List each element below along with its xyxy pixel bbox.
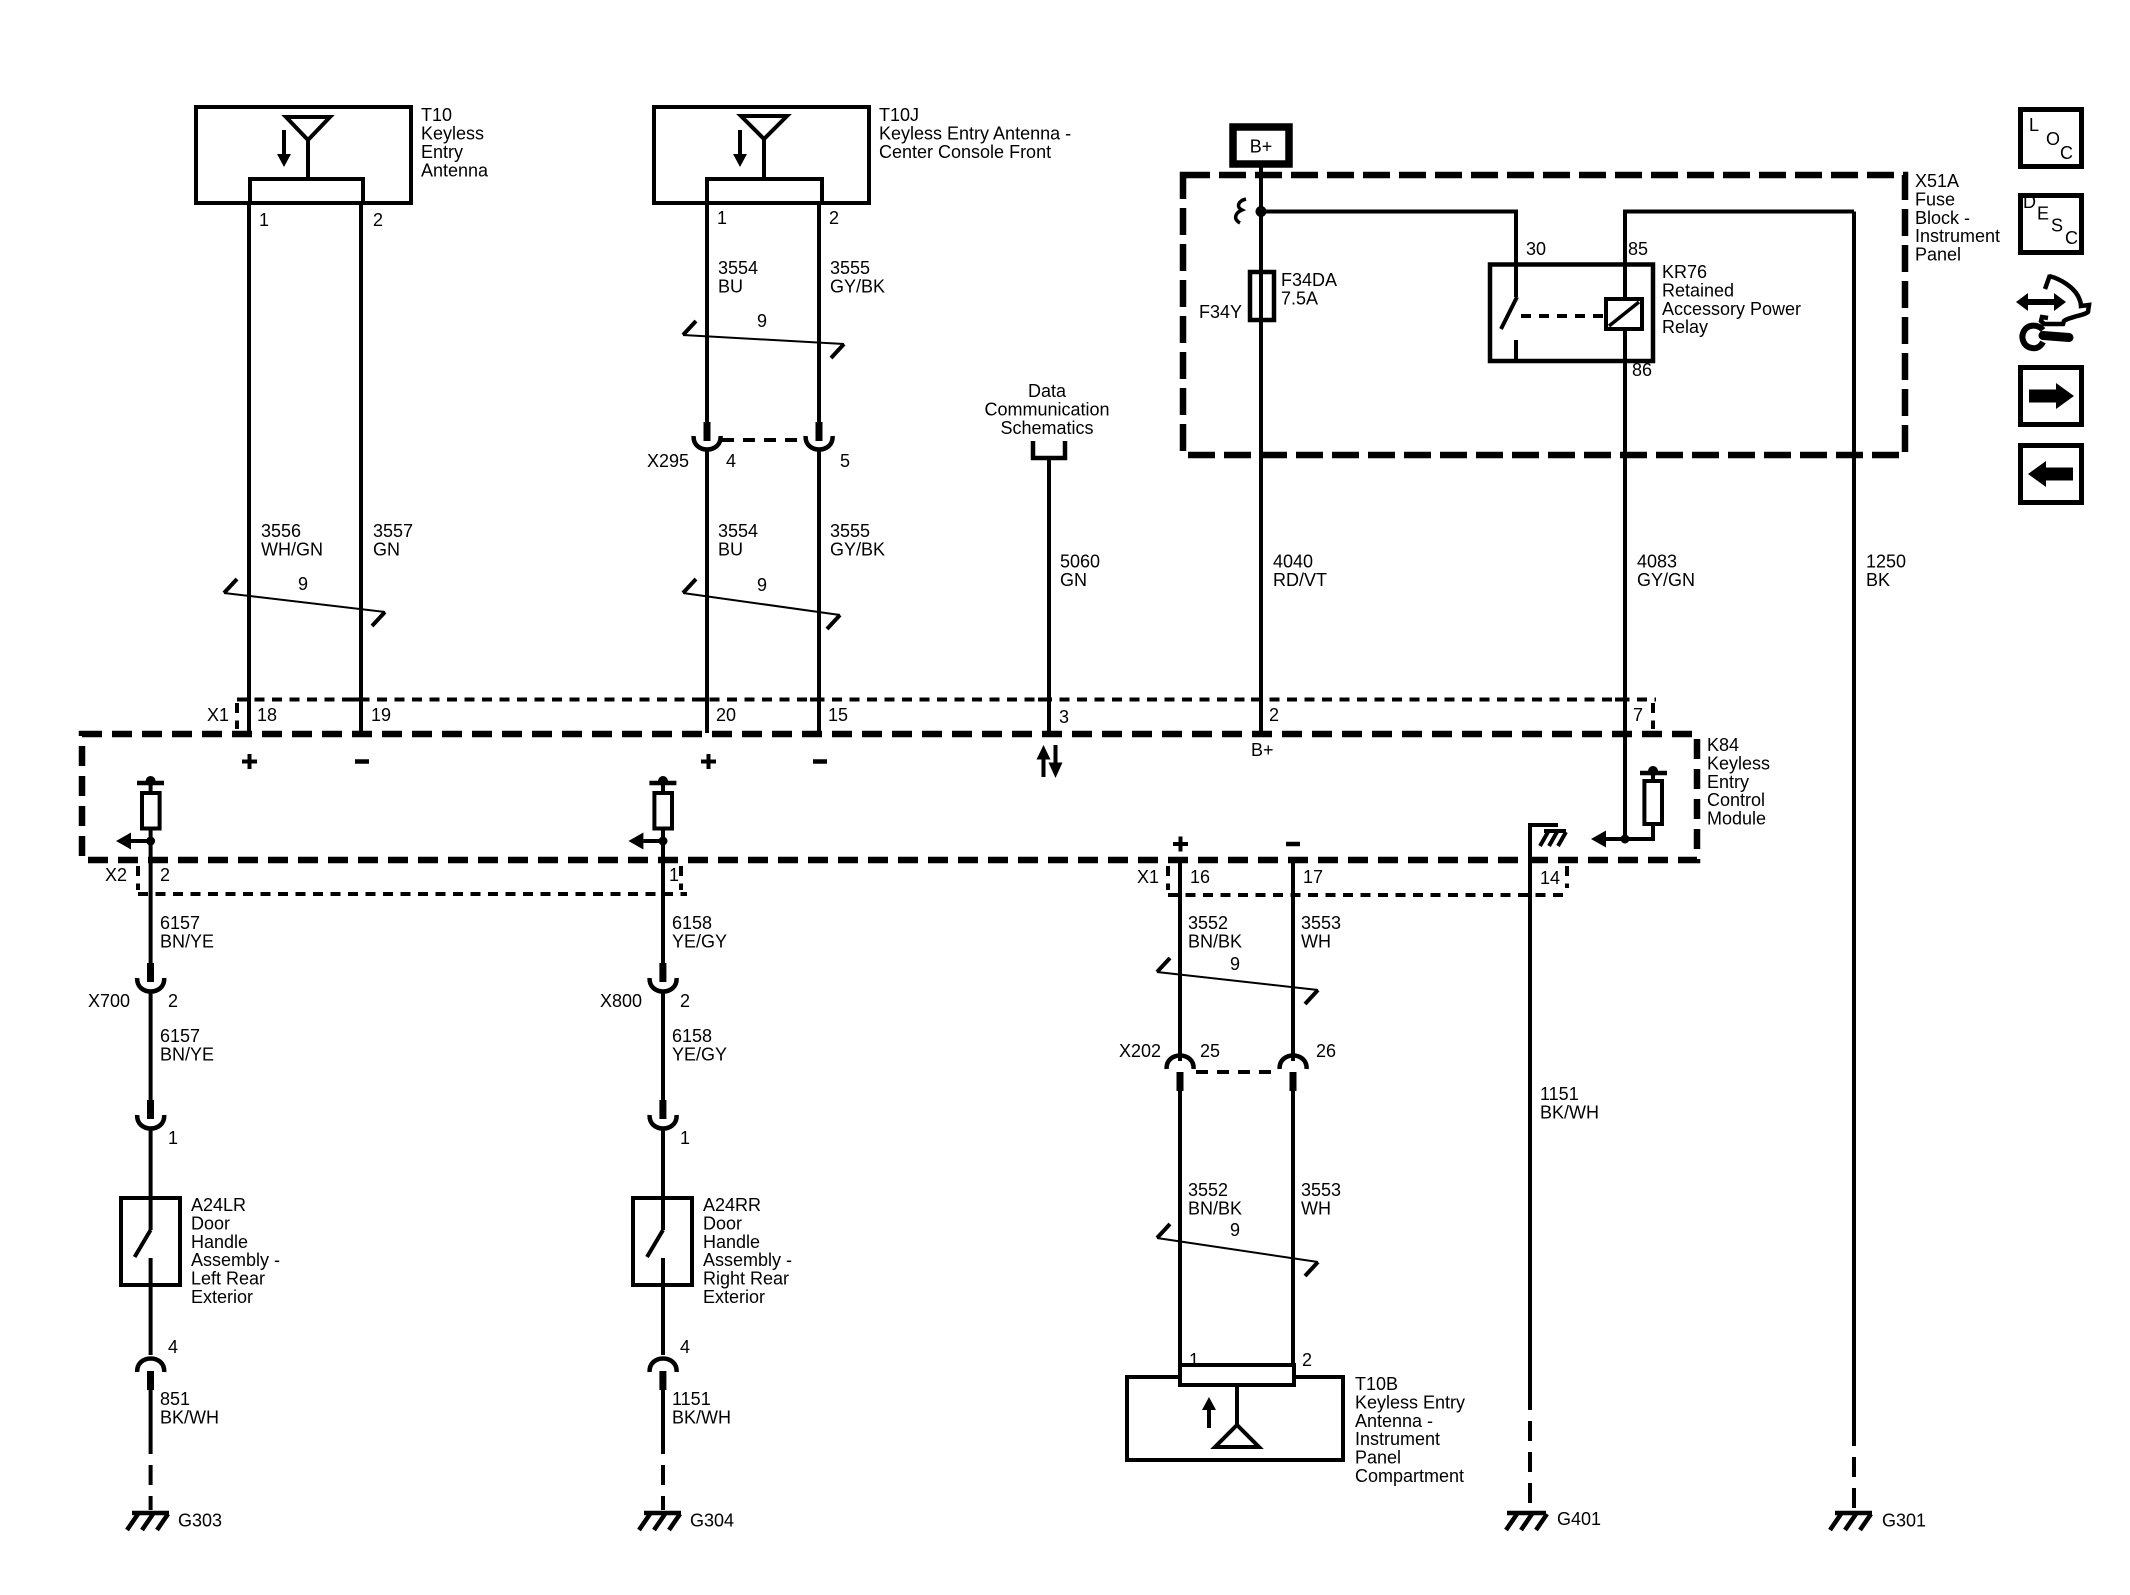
- svg-text:F34DA: F34DA: [1281, 270, 1337, 290]
- svg-text:Accessory Power: Accessory Power: [1662, 299, 1801, 319]
- connector X202: [1119, 1041, 1336, 1091]
- ground G401: [1506, 1509, 1601, 1530]
- antenna T10J (Keyless Entry Antenna - Center Console Front): [654, 105, 1071, 203]
- fuse clip squiggle: [1236, 199, 1246, 223]
- svg-text:6157: 6157: [160, 1026, 200, 1046]
- svg-text:X700: X700: [88, 991, 130, 1011]
- svg-text:K84: K84: [1707, 735, 1739, 755]
- svg-text:18: 18: [257, 705, 277, 725]
- svg-text:85: 85: [1628, 239, 1648, 259]
- svg-text:1: 1: [168, 1128, 178, 1148]
- svg-text:3: 3: [1059, 707, 1069, 727]
- svg-text:Door: Door: [191, 1213, 230, 1233]
- svg-text:Panel: Panel: [1355, 1448, 1401, 1468]
- svg-text:Entry: Entry: [1707, 772, 1749, 792]
- svg-text:5060: 5060: [1060, 552, 1100, 572]
- svg-text:BK/WH: BK/WH: [1540, 1103, 1599, 1123]
- svg-text:25: 25: [1200, 1041, 1220, 1061]
- svg-text:4040: 4040: [1273, 552, 1313, 572]
- svg-text:BU: BU: [718, 277, 743, 297]
- svg-text:2: 2: [680, 991, 690, 1011]
- svg-text:Assembly -: Assembly -: [703, 1250, 792, 1270]
- wire 5060 GN serial data to K84 X1-3: [1047, 458, 1051, 733]
- svg-text:Antenna: Antenna: [421, 161, 489, 181]
- antenna driver termination at X2 pin 2 inside K84: [116, 776, 164, 860]
- svg-text:6158: 6158: [672, 913, 712, 933]
- pin 7: [1615, 698, 1625, 702]
- node Data Communication Schematics: [984, 381, 1109, 458]
- twisted pair marker 9 on 3556/3557: [224, 574, 385, 626]
- wire B+ feed down into fuse block: [1259, 167, 1263, 733]
- svg-text:30: 30: [1526, 239, 1546, 259]
- svg-text:Assembly -: Assembly -: [191, 1250, 280, 1270]
- svg-text:1: 1: [717, 208, 727, 228]
- svg-text:F34Y: F34Y: [1199, 302, 1242, 322]
- connector X1 top row of K84: [207, 700, 1656, 730]
- icon DESC: [2021, 192, 2082, 253]
- polarity marks for antenna pins 16/17: [1173, 837, 1300, 852]
- svg-text:2: 2: [829, 208, 839, 228]
- wire 6157 BN/YE from K84 X2-2 to X700: [149, 860, 153, 963]
- module K84 Keyless Entry Control Module dashed box: [82, 734, 1697, 860]
- twisted pair marker 9 on 3552/3553 upper: [1157, 954, 1318, 1004]
- svg-text:GY/BK: GY/BK: [830, 540, 885, 560]
- svg-text:4: 4: [168, 1337, 178, 1357]
- svg-text:1: 1: [680, 1128, 690, 1148]
- pin 18: [239, 698, 249, 702]
- svg-text:A24RR: A24RR: [703, 1195, 761, 1215]
- pin 5 female cup: [806, 436, 833, 450]
- pull-up termination at pin 7 inside K84: [1591, 766, 1667, 848]
- svg-text:Handle: Handle: [703, 1232, 760, 1252]
- switch A24RR Door Handle Assembly - Right Rear Exterior: [633, 1129, 792, 1307]
- svg-text:9: 9: [298, 574, 308, 594]
- svg-text:9: 9: [757, 575, 767, 595]
- svg-text:BN/YE: BN/YE: [160, 932, 214, 952]
- wire 3555 GY/BK from T10J pin 2 to X295: [817, 203, 821, 424]
- svg-text:26: 26: [1316, 1041, 1336, 1061]
- relay switch contact: [1514, 265, 1518, 298]
- svg-text:BK: BK: [1866, 570, 1890, 590]
- svg-text:2: 2: [1269, 705, 1279, 725]
- svg-text:3554: 3554: [718, 258, 758, 278]
- connector X1 bottom row of K84: [1137, 866, 1567, 895]
- svg-text:B+: B+: [1250, 137, 1273, 157]
- svg-text:7: 7: [1633, 705, 1643, 725]
- svg-text:G304: G304: [690, 1511, 734, 1531]
- connector X295: [647, 422, 850, 471]
- svg-text:Door: Door: [703, 1213, 742, 1233]
- svg-text:2: 2: [373, 210, 383, 230]
- svg-text:WH/GN: WH/GN: [261, 540, 323, 560]
- svg-text:851: 851: [160, 1389, 190, 1409]
- svg-text:Retained: Retained: [1662, 280, 1734, 300]
- svg-text:2: 2: [160, 865, 170, 885]
- svg-text:2: 2: [168, 991, 178, 1011]
- node junction at B+ branch: [1256, 206, 1267, 217]
- connector X800: [600, 963, 690, 1011]
- ground G304: [639, 1511, 734, 1531]
- svg-text:BK/WH: BK/WH: [160, 1408, 219, 1428]
- svg-text:Entry: Entry: [421, 142, 463, 162]
- svg-text:1151: 1151: [672, 1389, 711, 1409]
- svg-text:3555: 3555: [830, 258, 870, 278]
- connector X700: [88, 963, 178, 1011]
- wire 3557 GN from T10 pin 2 to K84 X1-19: [359, 203, 363, 733]
- svg-text:RD/VT: RD/VT: [1273, 570, 1327, 590]
- svg-text:X51A: X51A: [1915, 171, 1959, 191]
- svg-text:17: 17: [1303, 867, 1323, 887]
- pin 4 male pin: [704, 422, 711, 441]
- svg-text:Block -: Block -: [1915, 208, 1970, 228]
- relay KR76 Retained Accessory Power Relay: [1490, 239, 1801, 380]
- fuse block X51A dashed box (Fuse Block - Instrument Panel): [1183, 175, 1905, 455]
- twisted pair marker 9 on 3554/3555 lower: [683, 575, 840, 629]
- svg-text:4: 4: [680, 1337, 690, 1357]
- svg-text:Keyless Entry: Keyless Entry: [1355, 1392, 1465, 1412]
- svg-text:A24LR: A24LR: [191, 1195, 246, 1215]
- wire 1151 BK/WH from K84 X1-14 to ground G401: [1528, 860, 1532, 1390]
- relay control dashed link: [1521, 314, 1604, 318]
- svg-text:WH: WH: [1301, 1199, 1331, 1219]
- antenna T10 (Keyless Entry Antenna): [196, 105, 489, 203]
- svg-text:Schematics: Schematics: [1000, 418, 1093, 438]
- svg-text:YE/GY: YE/GY: [672, 932, 727, 952]
- pin 4 female cup: [694, 436, 721, 450]
- svg-text:86: 86: [1632, 360, 1652, 380]
- power symbol B+: [1233, 127, 1289, 164]
- pin 15: [810, 698, 820, 702]
- svg-text:X295: X295: [647, 451, 689, 471]
- svg-text:16: 16: [1190, 867, 1210, 887]
- pin 5 male pin: [816, 422, 823, 441]
- svg-text:5: 5: [840, 451, 850, 471]
- svg-text:Communication: Communication: [984, 400, 1109, 420]
- svg-text:E: E: [2037, 204, 2049, 224]
- svg-text:6158: 6158: [672, 1026, 712, 1046]
- svg-text:G401: G401: [1557, 1509, 1601, 1529]
- icon LOC: [2021, 110, 2082, 167]
- connector pin 4 of A24RR: [650, 1285, 690, 1390]
- svg-text:1: 1: [669, 865, 679, 885]
- svg-text:G303: G303: [178, 1511, 222, 1531]
- connector pin 4 of A24LR: [137, 1285, 178, 1390]
- svg-text:Control: Control: [1707, 790, 1765, 810]
- internal chassis ground at pin 14 inside K84: [1530, 825, 1566, 860]
- wire from relay pin 85 to 1250 BK drop: [1625, 212, 1854, 265]
- svg-text:Instrument: Instrument: [1355, 1429, 1440, 1449]
- antenna T10B (Keyless Entry Antenna - Instrument Panel Compartment): [1127, 1365, 1465, 1486]
- svg-text:3552: 3552: [1188, 913, 1228, 933]
- svg-text:Data: Data: [1028, 381, 1067, 401]
- svg-text:1151: 1151: [1540, 1084, 1579, 1104]
- svg-text:Keyless Entry Antenna -: Keyless Entry Antenna -: [879, 124, 1071, 144]
- svg-text:C: C: [2065, 228, 2078, 248]
- svg-text:Left Rear: Left Rear: [191, 1269, 265, 1289]
- svg-text:1: 1: [259, 210, 269, 230]
- wire 3554 BU from T10J pin 1 to X295: [705, 203, 709, 424]
- svg-text:Panel: Panel: [1915, 245, 1961, 265]
- svg-text:Exterior: Exterior: [191, 1287, 253, 1307]
- svg-text:20: 20: [716, 705, 736, 725]
- svg-text:BN/BK: BN/BK: [1188, 1199, 1242, 1219]
- svg-text:B+: B+: [1251, 740, 1274, 760]
- relay coil: [1623, 265, 1627, 300]
- wire from B+ junction to relay pin 30: [1261, 212, 1516, 265]
- fuse F34DA 7.5A (holder F34Y): [1199, 270, 1337, 322]
- svg-text:3554: 3554: [718, 521, 758, 541]
- polarity marks for antenna pins 18/19: [242, 754, 369, 769]
- serial data up/down arrows under pin 3: [1037, 745, 1063, 778]
- svg-text:C: C: [2060, 143, 2073, 163]
- wire 3556 WH/GN from T10 pin 1 to K84 X1-18: [247, 203, 251, 733]
- svg-text:GN: GN: [373, 540, 400, 560]
- wire 851 BK/WH to ground G303: [149, 1390, 153, 1434]
- svg-text:3557: 3557: [373, 521, 413, 541]
- svg-text:X2: X2: [105, 865, 127, 885]
- svg-text:T10: T10: [421, 105, 452, 125]
- svg-text:YE/GY: YE/GY: [672, 1045, 727, 1065]
- ground G301: [1830, 1511, 1926, 1531]
- wire 3555 GY/BK from X295-5 to K84 X1-15: [817, 450, 821, 733]
- svg-text:WH: WH: [1301, 932, 1331, 952]
- svg-text:O: O: [2046, 129, 2060, 149]
- svg-text:BU: BU: [718, 540, 743, 560]
- svg-text:3553: 3553: [1301, 913, 1341, 933]
- svg-text:BK/WH: BK/WH: [672, 1408, 731, 1428]
- wire 3554 BU from X295-4 to K84 X1-20: [705, 450, 709, 733]
- svg-text:BN/BK: BN/BK: [1188, 932, 1242, 952]
- ground G303: [127, 1511, 222, 1531]
- X295 mating dashed link: [722, 438, 804, 442]
- wire 4083 GY/GN from relay 86 to K84 X1-7: [1623, 329, 1627, 839]
- svg-text:G301: G301: [1882, 1511, 1926, 1531]
- svg-text:T10B: T10B: [1355, 1374, 1398, 1394]
- svg-text:GN: GN: [1060, 570, 1087, 590]
- svg-text:Center Console Front: Center Console Front: [879, 142, 1051, 162]
- wire 6157 BN/YE from X700 to A24LR: [149, 992, 153, 1100]
- svg-text:Antenna -: Antenna -: [1355, 1411, 1433, 1431]
- polarity marks for antenna pins 20/15: [701, 754, 827, 769]
- svg-text:X202: X202: [1119, 1041, 1161, 1061]
- svg-text:3556: 3556: [261, 521, 301, 541]
- svg-text:4083: 4083: [1637, 552, 1677, 572]
- twisted pair marker 9 on 3552/3553 lower: [1157, 1220, 1318, 1276]
- svg-text:3555: 3555: [830, 521, 870, 541]
- svg-text:Module: Module: [1707, 809, 1766, 829]
- wire 6158 YE/GY from X800 to A24RR: [661, 992, 665, 1100]
- svg-text:D: D: [2023, 192, 2036, 212]
- svg-text:L: L: [2029, 115, 2039, 135]
- svg-text:19: 19: [371, 705, 391, 725]
- pin 19: [351, 698, 361, 702]
- svg-text:Exterior: Exterior: [703, 1287, 765, 1307]
- pin 3: [1038, 698, 1048, 702]
- pin 2: [1251, 698, 1261, 702]
- wire 3552 BN/BK from K84 X1-16 to X202: [1178, 858, 1182, 1061]
- svg-text:6157: 6157: [160, 913, 200, 933]
- svg-text:9: 9: [757, 311, 767, 331]
- svg-text:3552: 3552: [1188, 1180, 1228, 1200]
- svg-text:Handle: Handle: [191, 1232, 248, 1252]
- wire 3553 WH from K84 X1-17 to X202: [1291, 858, 1295, 1061]
- twisted pair marker 9 on 3554/3555 upper: [683, 311, 844, 358]
- svg-text:GY/BK: GY/BK: [830, 277, 885, 297]
- svg-text:1250: 1250: [1866, 552, 1906, 572]
- svg-text:9: 9: [1230, 954, 1240, 974]
- svg-text:Right Rear: Right Rear: [703, 1269, 789, 1289]
- antenna driver termination at X2 pin 1 inside K84: [628, 776, 676, 860]
- svg-text:S: S: [2051, 216, 2063, 236]
- wire 6158 YE/GY from K84 X2-1 to X800: [661, 860, 665, 963]
- svg-text:3553: 3553: [1301, 1180, 1341, 1200]
- pin 20: [698, 698, 708, 702]
- svg-text:BN/YE: BN/YE: [160, 1045, 214, 1065]
- connector X2 row of K84: [105, 865, 687, 894]
- svg-text:Keyless: Keyless: [421, 124, 484, 144]
- switch A24LR Door Handle Assembly - Left Rear Exterior: [121, 1129, 280, 1307]
- svg-text:KR76: KR76: [1662, 262, 1707, 282]
- svg-text:Instrument: Instrument: [1915, 226, 2000, 246]
- svg-text:2: 2: [1302, 1350, 1312, 1370]
- svg-text:4: 4: [726, 451, 736, 471]
- svg-text:14: 14: [1540, 868, 1560, 888]
- wire 3552 BN/BK from X202-25 to T10B pin 1: [1178, 1091, 1182, 1366]
- svg-text:15: 15: [828, 705, 848, 725]
- svg-text:Fuse: Fuse: [1915, 189, 1955, 209]
- svg-text:X1: X1: [207, 705, 229, 725]
- wire 1151 BK/WH to ground G304: [661, 1390, 665, 1434]
- wire 3553 WH from X202-26 to T10B pin 2: [1291, 1091, 1295, 1366]
- svg-text:9: 9: [1230, 1220, 1240, 1240]
- connector pin 1 of A24RR: [650, 1100, 690, 1148]
- icon vehicle compare arrows and wrench: [2016, 275, 2089, 348]
- connector pin 1 of A24LR: [137, 1100, 178, 1148]
- wire 1250 BK to ground G301: [1852, 212, 1856, 1427]
- svg-text:X800: X800: [600, 991, 642, 1011]
- icon previous page arrow: [2021, 446, 2082, 503]
- svg-text:GY/GN: GY/GN: [1637, 570, 1695, 590]
- svg-text:7.5A: 7.5A: [1281, 289, 1318, 309]
- svg-text:Relay: Relay: [1662, 317, 1708, 337]
- svg-text:T10J: T10J: [879, 105, 919, 125]
- icon next page arrow: [2021, 368, 2082, 425]
- svg-text:Keyless: Keyless: [1707, 753, 1770, 773]
- svg-text:X1: X1: [1137, 867, 1159, 887]
- svg-text:Compartment: Compartment: [1355, 1466, 1464, 1486]
